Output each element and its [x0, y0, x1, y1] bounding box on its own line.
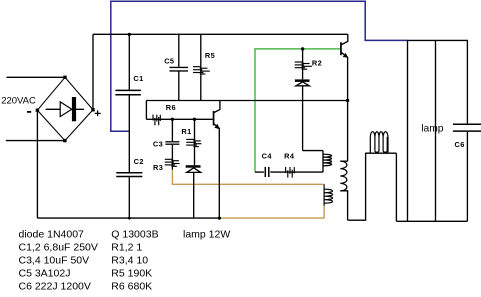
wire orange Q1 feedback bottom — [219, 206, 324, 218]
wire AC input bottom — [6, 140, 65, 142]
svg-text:R6: R6 — [166, 103, 176, 112]
wire blue lamp return — [111, 1, 408, 131]
svg-text:C2: C2 — [134, 157, 144, 166]
resistor R5 — [200, 34, 202, 100]
wire bottom rail — [37, 217, 219, 219]
node bottom of bridge — [63, 139, 66, 142]
resistor R4 — [270, 171, 323, 173]
svg-text:C1: C1 — [133, 74, 143, 83]
svg-text:220VAC: 220VAC — [1, 95, 36, 106]
transformer winding A — [322, 151, 324, 173]
svg-text:C1,2 6,8uF 250V: C1,2 6,8uF 250V — [19, 241, 98, 253]
bridge diode symbol — [46, 108, 84, 110]
resistor R3 — [171, 159, 173, 170]
wire bridge + up to top rail — [92, 34, 94, 110]
resistor R1 — [194, 119, 196, 165]
wire orange Q1 feedback top — [172, 170, 323, 185]
svg-text:R3,4 10: R3,4 10 — [111, 254, 148, 266]
junction bottom rail C2 — [128, 217, 131, 220]
minus sign — [27, 111, 31, 113]
diode D1 — [186, 165, 201, 168]
svg-text:C4: C4 — [262, 151, 273, 160]
wire bottom right rail — [396, 220, 467, 222]
node left of bridge — [36, 109, 39, 112]
capacitor C6 — [466, 40, 468, 123]
junction base line C3 — [171, 118, 174, 121]
transformer winding B — [324, 184, 332, 206]
wire U bottom to L — [348, 153, 366, 220]
wire bridge - down — [36, 110, 38, 218]
capacitor C3 — [171, 119, 173, 141]
svg-text:R6 680K: R6 680K — [111, 280, 152, 292]
wire to winding A — [303, 150, 323, 152]
node right of bridge — [91, 108, 94, 111]
transistor Q1 — [213, 111, 215, 125]
junction base line R1 — [193, 118, 196, 121]
capacitor C1 — [128, 34, 130, 89]
resistor R2 — [302, 49, 304, 79]
bridge rectifier B1 diamond — [37, 77, 93, 140]
svg-text:R2: R2 — [312, 59, 322, 68]
svg-text:C6: C6 — [455, 140, 465, 149]
svg-text:R5: R5 — [205, 51, 215, 60]
diode D2 — [295, 79, 310, 82]
wire green Q2 base — [255, 49, 340, 172]
wire top DC rail — [93, 33, 348, 35]
transistor Q2 — [340, 42, 342, 55]
resistor R6 — [146, 118, 212, 120]
svg-text:C5 3A102J: C5 3A102J — [19, 267, 71, 279]
capacitor C5 — [178, 34, 180, 67]
svg-text:lamp: lamp — [421, 124, 444, 135]
junction Q2 emitter mid line — [346, 99, 349, 102]
svg-text:diode 1N4007: diode 1N4007 — [19, 228, 85, 240]
svg-text:R5 190K: R5 190K — [111, 267, 152, 279]
inductor L — [365, 152, 396, 154]
svg-text:C6 222J 1200V: C6 222J 1200V — [19, 280, 91, 292]
svg-text:C3: C3 — [153, 140, 163, 149]
svg-text:R3: R3 — [153, 163, 163, 172]
svg-text:Q 13003B: Q 13003B — [111, 228, 158, 240]
junction C1 top rail — [128, 33, 131, 36]
svg-text:C5: C5 — [164, 56, 174, 65]
wire mid horizontal line — [146, 100, 347, 102]
transformer primary winding — [340, 160, 347, 162]
svg-text:C3,4 10uF 50V: C3,4 10uF 50V — [19, 254, 90, 266]
plus sign — [95, 110, 101, 116]
svg-text:lamp 12W: lamp 12W — [183, 228, 230, 240]
svg-text:R1: R1 — [181, 127, 191, 136]
wire R6 corner — [145, 101, 147, 120]
svg-text:R4: R4 — [284, 151, 295, 160]
svg-text:R1,2 1: R1,2 1 — [111, 241, 142, 253]
capacitor C2 — [116, 172, 142, 174]
wire AC input top — [7, 76, 66, 78]
node top of bridge — [63, 76, 66, 79]
junction bottom rail Q1 emitter — [218, 217, 221, 220]
capacitor C4 — [255, 171, 264, 173]
junction R2 green — [301, 47, 304, 50]
lamp — [407, 39, 468, 41]
